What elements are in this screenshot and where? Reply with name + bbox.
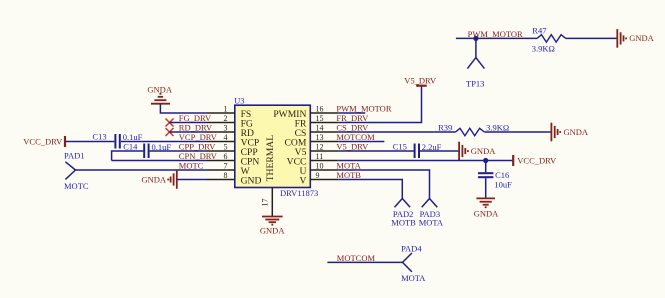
pin 4 stub [207,141,235,143]
svg-text:CPN_DRV: CPN_DRV [179,151,218,161]
resistor R39 [456,128,485,135]
wire pin 12 V5_DRV to C15 [338,150,414,152]
wire junction to C16 [485,161,487,173]
port V5_DRV top [404,76,437,86]
wire R47 to GNDA [566,37,617,39]
capacitor C13 [115,134,119,149]
resistor R47 [537,35,566,42]
svg-text:9: 9 [316,171,320,180]
wire pin 2 FG_DRV [170,122,208,124]
svg-text:V: V [299,175,306,186]
svg-text:V5_DRV: V5_DRV [336,142,369,152]
capacitor C16 [478,173,493,177]
wire VCC_DRV to C13 [65,141,114,143]
wire PAD1 to pin 7 MOTC [76,169,208,171]
ground GNDA right of R47 [617,29,626,48]
svg-text:V5_DRV: V5_DRV [404,76,437,86]
pin 7 stub [207,169,235,171]
svg-text:MOTA: MOTA [419,217,444,227]
svg-text:17: 17 [261,199,270,207]
svg-text:R39: R39 [438,122,452,132]
svg-text:2: 2 [224,114,228,123]
svg-text:13: 13 [316,133,324,142]
wire pin 6 CPN_DRV [112,160,207,162]
svg-text:7: 7 [224,162,228,171]
pin 10 stub [310,169,338,171]
pin 11 stub [310,160,338,162]
svg-text:U3: U3 [234,96,244,106]
wire pin 8 to GNDA [177,179,207,181]
pin 3 stub [207,131,235,133]
svg-text:GNDA: GNDA [147,85,172,95]
junction at C16 tap [483,158,488,163]
wire GNDA to pin 1 [160,104,207,113]
pin 8 stub [207,179,235,181]
wire pin 10 U to PAD3 [338,170,429,199]
svg-text:VCP_DRV: VCP_DRV [179,132,218,142]
wire C13 to pin 4 VCP_DRV [121,141,207,143]
wire junction to TP13 [475,38,477,57]
wire PWM_MOTOR top [456,37,537,39]
svg-text:VCC_DRV: VCC_DRV [517,155,557,165]
pin 16 stub [310,112,338,114]
svg-text:CS_DRV: CS_DRV [336,123,369,133]
svg-text:3.9KΩ: 3.9KΩ [486,123,509,133]
svg-text:12: 12 [316,143,324,152]
no-ERC X on pin 3 [166,128,174,136]
wire pin 9 V to PAD2 [338,180,402,199]
wire pin 15 FR_DRV up to V5_DRV port [338,86,421,123]
wire pin 17 to GNDA [271,188,273,217]
no-ERC X on pin 2 [166,119,174,127]
svg-text:MOTB: MOTB [391,217,416,227]
pin 9 stub [310,179,338,181]
svg-text:GNDA: GNDA [629,33,654,43]
svg-text:0.1uF: 0.1uF [123,132,143,142]
svg-text:C15: C15 [393,141,407,151]
svg-text:MOTA: MOTA [401,273,426,283]
svg-text:MOTCOM: MOTCOM [337,253,376,263]
svg-text:GNDA: GNDA [471,146,496,156]
svg-text:R47: R47 [532,26,546,36]
IC U3 DRV11873 body [235,105,310,187]
wire pin 16 PWM_MOTOR [338,112,365,114]
svg-text:10uF: 10uF [494,179,512,189]
svg-text:15: 15 [316,114,324,123]
svg-text:FG_DRV: FG_DRV [179,113,212,123]
wire C14 to pin 5 CPP_DRV [150,150,207,152]
svg-text:8: 8 [224,171,228,180]
wire pin 14 CS_DRV to R39 [338,131,455,133]
wire C15 to GNDA [420,150,459,152]
svg-text:THERMAL: THERMAL [265,135,276,182]
svg-text:4: 4 [224,133,228,142]
pin 2 stub [207,122,235,124]
pad PAD1 chevron [65,162,75,180]
svg-text:3: 3 [224,124,228,133]
wire pin 11 VCC to VCC_DRV port [338,160,513,162]
capacitor C15 [415,144,419,159]
svg-text:PWM_MOTOR: PWM_MOTOR [336,104,391,114]
svg-text:5: 5 [224,143,228,152]
svg-text:PAD1: PAD1 [64,151,84,161]
svg-text:16: 16 [316,105,324,114]
svg-text:6: 6 [224,152,228,161]
wire pin 13 MOTCOM stub [338,141,384,143]
pad PAD2 chevron [395,199,411,208]
wire R39 to GNDA [484,131,551,133]
svg-text:10: 10 [316,162,324,171]
junction at TP13 [473,36,478,41]
svg-text:RD_DRV: RD_DRV [179,123,213,133]
svg-text:CPP_DRV: CPP_DRV [179,142,217,152]
svg-text:MOTB: MOTB [336,170,361,180]
pin 13 stub [310,141,338,143]
pin 14 stub [310,131,338,133]
ground GNDA above pin 1 [151,94,170,104]
pin 15 stub [310,122,338,124]
svg-text:C13: C13 [93,132,107,142]
svg-text:DRV11873: DRV11873 [280,188,318,198]
capacitor C14 [144,144,148,159]
ground GNDA right of R39 [551,123,560,142]
port VCC_DRV right [513,155,557,166]
wire pin 3 RD_DRV [170,131,208,133]
svg-text:PAD4: PAD4 [401,244,422,254]
svg-text:MOTA: MOTA [336,161,361,171]
wire C14 left branch [112,151,144,161]
svg-text:1: 1 [224,105,228,114]
ground GNDA below pin 17 [262,217,283,225]
svg-text:GNDA: GNDA [474,209,499,219]
pad PAD4 chevron [403,253,412,272]
svg-text:TP13: TP13 [466,79,484,89]
pad PAD3 chevron [422,199,438,208]
svg-text:3.9KΩ: 3.9KΩ [532,43,555,53]
pin 12 stub [310,150,338,152]
wire C16 to GNDA [485,178,487,198]
svg-text:GNDA: GNDA [564,127,589,137]
svg-text:FR_DRV: FR_DRV [336,113,369,123]
ground GNDA below C16 [476,198,495,207]
svg-text:MOTC: MOTC [64,181,89,191]
pin 1 stub [207,113,338,180]
svg-text:GNDA: GNDA [260,226,285,236]
ground GNDA at pin 8 (pointing left) [168,170,177,189]
svg-text:MOTC: MOTC [179,161,204,171]
svg-text:11: 11 [316,152,324,161]
svg-text:GND: GND [241,175,262,186]
pin 5 stub [207,150,235,152]
wire MOTCOM bottom [327,261,402,263]
port VCC_DRV left [23,136,65,147]
svg-text:14: 14 [316,124,324,133]
svg-text:GNDA: GNDA [141,174,166,184]
ground GNDA right of C15 [459,142,468,161]
svg-text:VCC_DRV: VCC_DRV [23,136,63,146]
svg-text:C14: C14 [123,141,138,151]
svg-text:MOTCOM: MOTCOM [336,132,375,142]
test point TP13 chevron [467,58,484,69]
pin 6 stub [207,160,235,162]
